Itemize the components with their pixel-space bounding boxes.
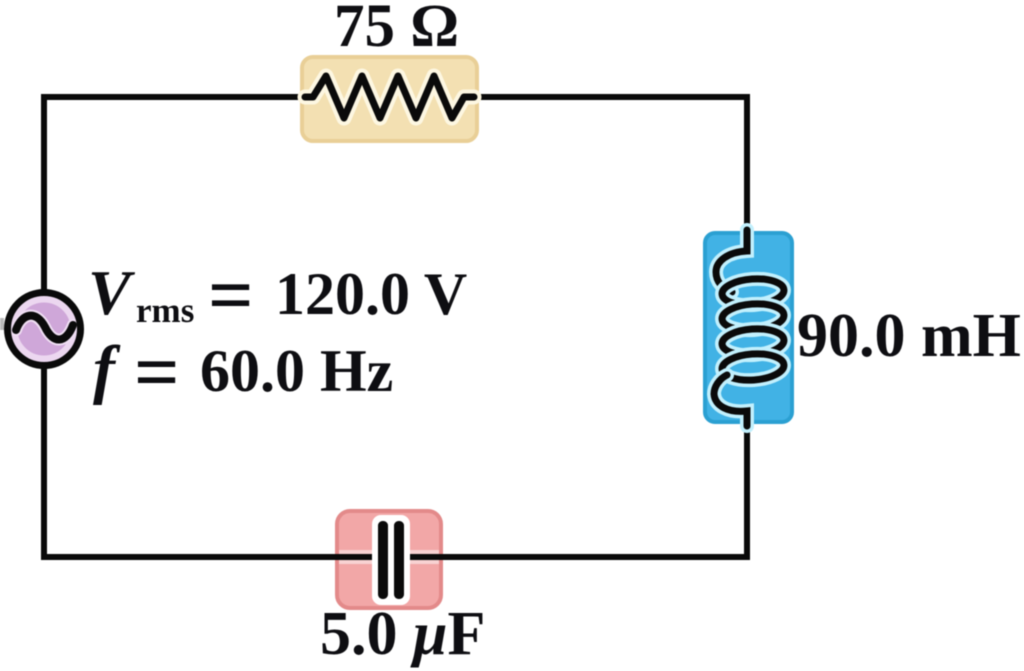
wire right upper: [744, 94, 750, 252]
AC source ring: [8, 293, 81, 366]
svg-text:5.0 μF: 5.0 μF: [320, 600, 485, 668]
AC source inner light ring: [14, 299, 74, 359]
wire left upper: [41, 94, 47, 292]
wire left lower: [41, 365, 47, 560]
inductor body box: [705, 233, 792, 422]
AC source sine halo: [16, 316, 73, 340]
svg-text:120.0 V: 120.0 V: [275, 261, 467, 327]
capacitor left plate: [378, 521, 388, 599]
capacitor plates halo: [372, 515, 410, 605]
wire bottom (right of capacitor): [407, 554, 750, 560]
capacitor right plate: [394, 521, 404, 599]
wire top (right of resistor): [468, 94, 750, 100]
coil bottom hook: [714, 375, 747, 426]
svg-text:60.0 Hz: 60.0 Hz: [200, 338, 393, 404]
coil loop 2: [721, 302, 785, 332]
wire right lower: [744, 410, 750, 560]
coil loop 1: [721, 277, 785, 307]
AC source circle fill: [5, 290, 83, 368]
svg-text:90.0 mH: 90.0 mH: [797, 302, 1021, 370]
svg-text:=: =: [134, 329, 180, 417]
AC source sine wave: [16, 316, 73, 340]
inductor coil (90.0 mH): [714, 230, 785, 426]
capacitor body box: [337, 511, 441, 608]
svg-text:75 Ω: 75 Ω: [334, 0, 459, 60]
svg-text:V: V: [88, 257, 136, 328]
capacitor wire halo band: [339, 550, 439, 564]
scan mark (left edge): [0, 318, 4, 330]
wire top (left of resistor): [41, 94, 310, 100]
resistor body box: [302, 57, 477, 141]
svg-text:rms: rms: [136, 291, 194, 330]
wire bottom (left of capacitor): [41, 554, 375, 560]
svg-text:=: =: [208, 252, 254, 340]
coil loop 3: [721, 327, 785, 357]
coil loop 4: [721, 352, 785, 382]
coil top hook: [716, 230, 747, 292]
resistor zigzag (75 ohm): [305, 76, 474, 118]
